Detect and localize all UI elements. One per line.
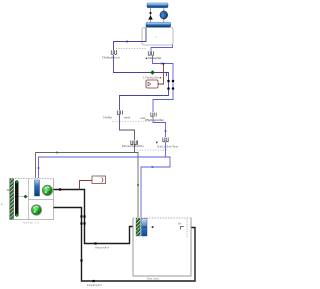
- wire navy from box to weather block W1: [114, 28, 147, 50]
- building box: [133, 218, 191, 281]
- wire blue T4 to main: [165, 142, 167, 157]
- svg-text:returnAir: returnAir: [95, 246, 109, 250]
- svg-text:·˝▪: ·˝▪: [154, 35, 157, 39]
- valve V1: [148, 12, 153, 20]
- duct black upper: [54, 190, 137, 244]
- wire maroon to controller: [158, 64, 164, 85]
- svg-text:◆TAirSupSet: ◆TAirSupSet: [146, 56, 162, 60]
- sensor T1: [103, 111, 146, 121]
- AHU hatch wall: [10, 179, 14, 219]
- building dashed wall: [186, 219, 188, 237]
- block W1 (weather/setpoint): [102, 50, 120, 59]
- cooling coil: [35, 180, 40, 196]
- pipe PIPE1 (top): [147, 3, 168, 8]
- block W2 (setpoint): [146, 51, 162, 60]
- weather block TOut: [92, 176, 106, 184]
- AHU black bar (wall/hx): [15, 181, 19, 216]
- node duct squares: [80, 215, 85, 261]
- node green diamond: [150, 70, 155, 75]
- wire navy stub arrow: [166, 73, 168, 77]
- wire: [163, 8, 165, 23]
- valve T2: [122, 141, 158, 149]
- pipe PIPE2: [146, 22, 171, 27]
- node green dot top: [15, 180, 18, 183]
- sensor T4: [137, 138, 179, 151]
- fan F1: [42, 185, 52, 195]
- wire blue main: [39, 157, 171, 219]
- node ports 2x2 dots: [167, 80, 174, 90]
- svg-text:#OuaCoiValNtu: #OuaCoiValNtu: [122, 144, 144, 148]
- svg-text:Sim.zon: Sim.zon: [147, 277, 159, 281]
- sensor T3: [145, 113, 164, 122]
- duct arrow marks: [95, 242, 97, 244]
- node port square: [152, 226, 154, 228]
- svg-text:#TAirLvgCoiSet: #TAirLvgCoiSet: [145, 118, 164, 122]
- svg-text:OaCoiSenTem: OaCoiSenTem: [157, 144, 179, 148]
- AHU divider lines: [28, 179, 30, 220]
- room hatch wall: [136, 219, 140, 237]
- fan F2: [31, 205, 41, 215]
- wire navy W1 down and across: [114, 55, 169, 110]
- svg-text:TAirSupSet y h: TAirSupSet y h: [102, 56, 120, 60]
- cooling tower box U1: [142, 28, 173, 45]
- wire: [150, 8, 152, 23]
- svg-text:supplyAir: supplyAir: [87, 283, 102, 287]
- wire blue W2 down, bracket right: [153, 56, 174, 112]
- wire gray main supply: [36, 153, 139, 219]
- svg-text:1.FanSupTem■: 1.FanSupTem■: [143, 75, 162, 79]
- pump P1: [160, 11, 168, 19]
- dashed line: [116, 48, 147, 50]
- dashed line 2: [112, 121, 150, 123]
- glyph qLoad: [178, 223, 184, 230]
- wire blue T3 to T4: [153, 117, 166, 138]
- svg-text:retAir: retAir: [124, 115, 131, 119]
- wire gray T1 to valve T2: [120, 115, 135, 141]
- AHU box: [10, 179, 54, 220]
- wire maroon TOut: [80, 181, 93, 190]
- controller C1 (red box): [143, 75, 162, 88]
- circuit schematic: HVAC system diagram: [0, 0, 201, 289]
- duct black lower: [54, 208, 196, 282]
- node green dot bottom: [15, 214, 18, 217]
- room volume blue: [142, 219, 148, 237]
- svg-text:TAirRet: TAirRet: [103, 115, 112, 119]
- svg-text:fanSup 1.0: fanSup 1.0: [23, 222, 39, 225]
- wire gray valve to main: [134, 145, 136, 153]
- node green diamond divider: [24, 195, 28, 199]
- wire blue from box to block W2: [151, 45, 173, 51]
- AHU left stub: [7, 189, 10, 191]
